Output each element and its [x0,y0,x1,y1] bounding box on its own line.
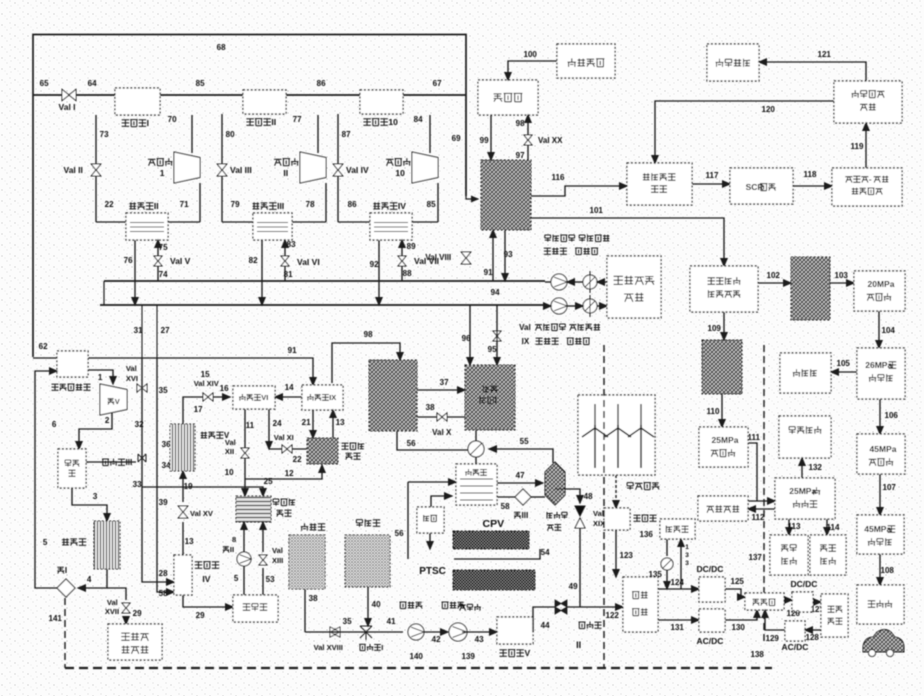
svg-text:99: 99 [480,136,489,145]
svg-text:5: 5 [234,574,239,583]
svg-text:Val XVIII: Val XVIII [314,643,343,652]
svg-text:I: I [381,643,383,652]
svg-text:10: 10 [388,117,398,127]
svg-text:13: 13 [185,537,194,546]
svg-text:102: 102 [767,271,781,280]
svg-text:88: 88 [403,269,412,278]
svg-text:54: 54 [541,548,550,557]
svg-text:VI: VI [261,393,268,402]
svg-text:CPV: CPV [482,518,504,530]
svg-text:97: 97 [516,151,525,160]
svg-text:138: 138 [751,650,765,659]
svg-text:89: 89 [407,242,416,251]
svg-text:26MPa: 26MPa [865,360,892,370]
svg-text:6: 6 [52,420,57,429]
svg-text:101: 101 [590,206,604,215]
svg-text:IX: IX [522,337,530,346]
svg-text:29: 29 [196,611,205,620]
svg-text:Val I: Val I [59,102,76,112]
svg-text:91: 91 [288,346,297,355]
svg-text:IV: IV [202,574,210,584]
svg-text:56: 56 [395,529,404,538]
svg-text:119: 119 [851,142,864,151]
svg-text:Val: Val [225,438,236,447]
svg-text:130: 130 [732,623,746,632]
svg-text:85: 85 [196,79,205,88]
svg-text:68: 68 [217,43,226,52]
svg-text:48: 48 [584,492,593,501]
svg-text:109: 109 [708,324,722,333]
svg-text:41: 41 [387,617,396,626]
svg-text:140: 140 [410,652,424,661]
svg-text:II: II [154,201,159,211]
svg-text:25MPa: 25MPa [712,435,739,445]
svg-text:116: 116 [552,173,565,182]
svg-text:Val: Val [519,323,531,332]
svg-text:123: 123 [620,551,634,560]
svg-text:IV: IV [398,201,406,211]
svg-text:120: 120 [762,105,776,114]
svg-text:17: 17 [194,405,203,414]
svg-text:58: 58 [501,502,510,511]
svg-text:1: 1 [160,168,165,178]
svg-text:53: 53 [266,575,275,584]
svg-text:45MPa: 45MPa [864,524,891,534]
svg-text:20MPa: 20MPa [868,279,895,289]
svg-text:III: III [522,511,529,520]
svg-text:22: 22 [293,455,302,464]
svg-text:12: 12 [285,469,294,478]
svg-text:75: 75 [159,243,168,252]
svg-text:135: 135 [649,570,663,579]
svg-text:IX: IX [329,393,336,402]
svg-text:DC/DC: DC/DC [791,579,818,589]
svg-text:141: 141 [49,614,63,623]
svg-text:33: 33 [133,480,142,489]
svg-text:XVII: XVII [105,607,119,616]
svg-text:21: 21 [302,418,311,427]
svg-text:79: 79 [231,200,240,209]
svg-text:Val V: Val V [170,256,191,266]
svg-text:70: 70 [168,115,177,124]
svg-text:3: 3 [685,560,689,567]
svg-text:Val: Val [107,598,118,607]
svg-text:V: V [524,648,530,658]
svg-text:47: 47 [516,471,525,480]
svg-text:1: 1 [685,544,689,551]
svg-text:76: 76 [124,256,133,265]
svg-text:136: 136 [640,530,654,539]
svg-text:86: 86 [317,79,326,88]
svg-text:121: 121 [818,50,832,59]
svg-text:110: 110 [707,407,720,416]
svg-text:39: 39 [159,498,168,507]
svg-text:91: 91 [484,268,493,277]
svg-text:55: 55 [520,437,529,446]
svg-text:106: 106 [885,411,899,420]
svg-text:113: 113 [788,522,801,531]
svg-text:III: III [277,201,284,211]
svg-text:49: 49 [569,582,578,591]
svg-text:II: II [283,168,288,178]
svg-text:38: 38 [309,594,318,603]
svg-text:I: I [495,396,497,405]
svg-text:4: 4 [87,575,92,584]
svg-text:67: 67 [433,79,442,88]
svg-text:108: 108 [881,566,895,575]
svg-text:10: 10 [225,468,234,477]
svg-text:32: 32 [135,420,144,429]
svg-text:Val III: Val III [230,165,252,175]
svg-text:107: 107 [883,483,897,492]
svg-text:14: 14 [285,383,294,392]
svg-text:111: 111 [748,433,761,442]
svg-text:38: 38 [426,403,435,412]
svg-text:128: 128 [806,633,820,642]
svg-text:11: 11 [246,421,255,430]
svg-text:131: 131 [671,623,685,632]
svg-text:Val: Val [126,364,137,373]
svg-text:XIX: XIX [593,519,605,528]
svg-text:96: 96 [462,334,471,343]
svg-text:129: 129 [766,634,780,643]
svg-text:40: 40 [372,600,381,609]
svg-text:42: 42 [432,635,441,644]
svg-text:Val VI: Val VI [297,257,320,267]
svg-text:78: 78 [306,200,315,209]
svg-text:83: 83 [287,240,296,249]
svg-text:Val: Val [593,509,604,518]
svg-text:80: 80 [226,130,235,139]
svg-text:-: - [869,175,872,184]
svg-text:77: 77 [293,115,302,124]
svg-text:56: 56 [407,439,416,448]
svg-text:100: 100 [524,50,538,59]
svg-text:II: II [230,545,234,554]
svg-text:37: 37 [440,378,449,387]
svg-text:10: 10 [395,168,405,178]
svg-text:Val XX: Val XX [538,136,563,145]
svg-text:13: 13 [336,418,345,427]
svg-text:15: 15 [201,370,210,379]
svg-text:82: 82 [249,256,258,265]
svg-text:3: 3 [685,552,689,559]
svg-text:Val XIV: Val XIV [194,379,219,388]
svg-text:81: 81 [284,270,293,279]
svg-text:118: 118 [804,170,817,179]
svg-text:71: 71 [180,200,189,209]
svg-text:117: 117 [706,171,719,180]
svg-text:II: II [576,640,581,650]
svg-text:22: 22 [105,200,114,209]
svg-text:94: 94 [491,288,500,297]
svg-text:AC/DC: AC/DC [697,636,724,646]
svg-text:126: 126 [787,609,801,618]
svg-text:44: 44 [541,621,550,630]
svg-text:5: 5 [43,538,48,547]
svg-text:Val XI: Val XI [274,433,294,442]
svg-text:139: 139 [462,652,476,661]
svg-text:98: 98 [516,119,525,128]
svg-text:24: 24 [273,419,282,428]
svg-text:69: 69 [452,134,461,143]
svg-text:PTSC: PTSC [419,566,446,577]
svg-text:29: 29 [133,609,142,618]
svg-text:Val X: Val X [432,428,452,437]
svg-text:58: 58 [159,589,168,598]
svg-text:1: 1 [98,373,103,382]
svg-text:Val XV: Val XV [190,509,213,518]
svg-text:3: 3 [93,492,98,501]
svg-text:125: 125 [731,577,745,586]
svg-text:Val: Val [272,546,283,555]
svg-text:65: 65 [40,79,49,88]
svg-text:35: 35 [159,386,168,395]
svg-text:DC/DC: DC/DC [697,564,724,574]
svg-text:122: 122 [606,611,620,620]
svg-text:98: 98 [364,330,373,339]
svg-text:I: I [147,118,149,128]
svg-text:25MPa: 25MPa [789,486,816,496]
svg-text:35: 35 [343,617,352,626]
svg-text:XVI: XVI [126,374,138,383]
svg-text:XII: XII [225,447,234,456]
svg-text:XIII: XIII [272,556,283,565]
svg-text:103: 103 [835,271,849,280]
svg-text:132: 132 [809,463,823,472]
svg-text:II: II [271,117,276,127]
svg-text:84: 84 [414,115,423,124]
svg-text:85: 85 [427,200,436,209]
svg-text:45MPa: 45MPa [870,444,897,454]
svg-text:43: 43 [475,635,484,644]
svg-text:86: 86 [348,200,357,209]
svg-text:92: 92 [370,260,379,269]
svg-text:64: 64 [88,79,97,88]
svg-text:95: 95 [488,345,497,354]
svg-text:27: 27 [161,326,170,335]
svg-text:104: 104 [882,326,896,335]
svg-text:25: 25 [264,477,273,486]
svg-text:87: 87 [342,130,351,139]
svg-text:28: 28 [159,569,168,578]
svg-text:V: V [115,397,120,406]
svg-text:73: 73 [100,130,109,139]
svg-text:Val VIII: Val VIII [425,253,451,262]
svg-text:124: 124 [671,578,685,587]
svg-text:114: 114 [827,523,840,532]
svg-text:112: 112 [752,513,765,522]
svg-text:I: I [65,566,67,575]
svg-text:8: 8 [232,535,236,544]
svg-text:31: 31 [134,326,143,335]
svg-text:AC/DC: AC/DC [782,642,809,652]
svg-text:2: 2 [105,416,110,425]
svg-text:Val II: Val II [64,165,83,175]
svg-text:62: 62 [39,342,48,351]
svg-text:16: 16 [220,384,229,393]
svg-text:74: 74 [159,270,168,279]
svg-text:137: 137 [749,553,763,562]
svg-text:105: 105 [837,359,851,368]
svg-text:Val IV: Val IV [346,165,369,175]
